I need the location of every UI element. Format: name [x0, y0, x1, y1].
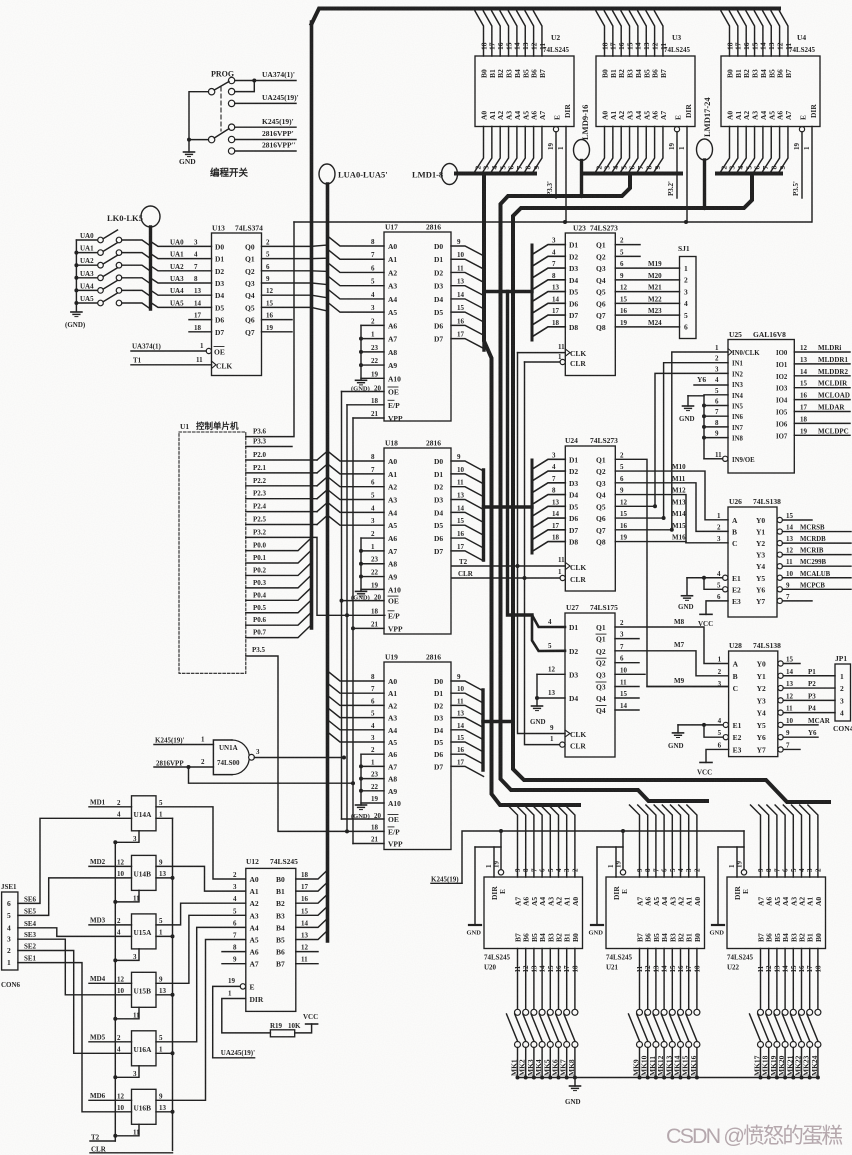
wire U26 E3 vcc — [706, 601, 728, 615]
wire U13 Q4 — [262, 294, 312, 296]
bus tie U19 lower — [483, 720, 513, 723]
wire U24 Q8 M16 — [615, 542, 728, 543]
wire U21 A5 top pin — [646, 805, 656, 877]
wire U24 D4 — [532, 495, 565, 505]
wire U19 D7 fan — [451, 766, 484, 776]
wire U23 Q5 — [615, 291, 679, 293]
wire U17 D6 fan — [451, 325, 484, 335]
wire U4 B0 pin — [721, 11, 730, 56]
wire U22 B4 bottom pin — [784, 949, 786, 1010]
EEPROM U19 2816 — [384, 662, 451, 850]
wire U20 A6 top pin — [516, 805, 526, 877]
wire U27 D1 feed — [532, 615, 565, 627]
wire U12 B1 — [296, 882, 328, 891]
wire U26 Y3 — [782, 554, 784, 556]
wire U13 Q3 — [262, 282, 312, 284]
switch MK13 — [669, 1009, 675, 1015]
bus U24 input fan trunk — [531, 460, 534, 553]
register U13 74LS374 — [212, 233, 262, 376]
wire U2 B1 pin — [483, 11, 492, 56]
wire U18 A1 entry — [328, 464, 385, 474]
wire CLR chain — [525, 362, 566, 745]
bus U18 data fan trunk — [482, 470, 485, 560]
wire U18 A6-A10 gnd tie — [360, 538, 362, 591]
wire UA1 to trunk — [122, 253, 151, 259]
wire U3 A4 pin — [628, 127, 638, 174]
wire U26 Y4 — [782, 565, 784, 567]
wire gate out trunk — [172, 818, 174, 1150]
wire SE2 — [18, 951, 132, 1054]
wire U17 D3 fan — [451, 286, 484, 296]
bus LMD9-16 route — [501, 174, 708, 801]
wire U19 A10 tie — [361, 802, 384, 804]
wire DIR common — [294, 221, 811, 223]
wire U3 B6 pin — [646, 11, 655, 56]
wire U26 E1 E2 gnd — [687, 577, 723, 579]
wire U19 A0 entry — [328, 671, 385, 681]
wire U19 A8 tie — [361, 778, 384, 780]
wire U13 Q5 — [262, 306, 312, 308]
wire U18 D0 fan — [451, 461, 484, 471]
wire PROG link dashed — [220, 87, 222, 131]
wire U12 B2 — [296, 894, 328, 903]
wire U19 D6 fan — [451, 754, 484, 764]
wire U24 Q4 M12 — [615, 495, 686, 543]
wire U23 Q6 — [615, 302, 679, 304]
wire bus jog Q5 — [312, 307, 328, 311]
wire UA0 to U13 — [151, 241, 212, 246]
switch MK15 — [686, 1009, 692, 1015]
wire U19 A7 tie — [361, 765, 384, 767]
bus address riser — [326, 184, 330, 941]
wire U20 enable drop — [475, 831, 501, 847]
wire U3 B4 pin — [629, 11, 638, 56]
wire U2 B2 pin — [492, 11, 501, 56]
wire U4 A7 pin — [778, 127, 788, 174]
wire U2 A4 pin — [507, 127, 517, 174]
wire U19 A9 tie — [361, 790, 384, 792]
wire SE3 — [18, 939, 132, 995]
ground U20 — [469, 924, 481, 926]
wire U20 B1 bottom pin — [566, 949, 568, 1010]
wire U23 D5 — [532, 292, 565, 302]
wire U26 Y7 — [782, 600, 784, 602]
wire UA374(1)' contact — [235, 80, 296, 82]
wire U20 B2 bottom pin — [558, 949, 560, 1010]
wire U22 A3 top pin — [783, 805, 793, 877]
wire U23 Q3 — [615, 267, 679, 269]
wire gate out2 row 2 — [156, 935, 173, 937]
wire U18 D4 fan — [451, 512, 484, 522]
wire U24 Q1 to M9 — [615, 459, 728, 686]
bus bar under U4 — [717, 172, 781, 176]
switch MK16 — [694, 1009, 700, 1015]
bus LMD1-8 vertical — [484, 175, 579, 805]
wire U3 B0 pin — [596, 11, 605, 56]
wire U2 B7 pin — [533, 11, 542, 56]
wire U3 A7 pin — [653, 127, 663, 174]
wire U16A control tab — [115, 1066, 139, 1078]
switch MK6 — [556, 1009, 562, 1015]
EEPROM U18 2816 — [384, 448, 451, 634]
wire U4 A3 pin — [745, 127, 755, 174]
wire U22 B2 bottom pin — [801, 949, 803, 1010]
wire U17 A6 tie — [361, 324, 384, 326]
wire U13 Q1 — [262, 258, 312, 260]
switch MK8 — [572, 1009, 578, 1015]
wire U2 B5 pin — [517, 11, 526, 56]
wire U18 D6 fan — [451, 538, 484, 548]
wire SE5 — [18, 878, 132, 916]
wire U12 B4 — [296, 918, 328, 927]
wire U23 D2 — [532, 256, 565, 266]
wire U21 B2 bottom pin — [680, 949, 682, 1010]
wire U22 B7 bottom pin — [760, 949, 762, 1010]
wire U13 Q0 — [262, 245, 312, 247]
wire U20 B7 bottom pin — [517, 949, 519, 1010]
wire U12 A7 stub — [222, 963, 246, 965]
ground U25 — [688, 395, 704, 397]
wire UA2 to U13 — [151, 266, 212, 271]
wire U21 enable drop — [597, 831, 623, 847]
wire U21 A6 top pin — [638, 805, 648, 877]
connector JP1 — [835, 664, 851, 721]
switch MK12 — [661, 1009, 667, 1015]
buffer U12 74LS245 — [246, 868, 296, 1011]
switch MK7 — [564, 1009, 570, 1015]
wire U4 B4 pin — [754, 11, 763, 56]
wire U4 A2 pin — [736, 127, 746, 174]
74LS245 U3 — [596, 56, 695, 127]
wire U20 B0 bottom pin — [574, 949, 576, 1010]
switch MK14 — [678, 1009, 684, 1015]
bus LK trunk — [149, 227, 152, 309]
wire U21 A2 top pin — [671, 805, 681, 877]
wire U22 B5 bottom pin — [776, 949, 778, 1010]
wire U17 D5 fan — [451, 312, 484, 322]
wire U27 Q4 stub — [615, 709, 639, 711]
wire U23 D6 — [532, 303, 565, 313]
wire U21 A7 top pin — [630, 805, 640, 877]
wire U20 A0 top pin — [565, 805, 575, 877]
switch MK21 — [790, 1009, 796, 1015]
wire U19 D5 fan — [451, 742, 484, 752]
wire U24 D7 — [532, 530, 565, 540]
wire UA2 to trunk — [122, 265, 151, 271]
wire U25 IO3 — [794, 387, 850, 389]
wire U15B control tab — [115, 1007, 139, 1019]
wire U4 B6 pin — [771, 11, 780, 56]
wire U23 D1 — [532, 245, 565, 255]
wire U27 Q3 stub — [615, 673, 645, 675]
wire U19 D4 fan — [451, 730, 484, 740]
wire bus jog Q1 — [312, 257, 328, 259]
wire U12 B7 — [296, 963, 318, 965]
wire U23 Q1 — [615, 244, 640, 246]
wire U22 A5 top pin — [767, 805, 777, 877]
wire U24 Q7 M15 — [615, 529, 672, 531]
wire U3 A3 pin — [620, 127, 630, 174]
wire U19 A4 entry — [328, 720, 385, 730]
wire U20 A4 top pin — [532, 805, 542, 877]
wire U22 B1 bottom pin — [809, 949, 811, 1010]
wire U22 A4 top pin — [775, 805, 785, 877]
wire U4 A1 pin — [728, 127, 738, 174]
wire U3 A2 pin — [611, 127, 621, 174]
wire U20 B5 bottom pin — [533, 949, 535, 1010]
wire U22 B6 bottom pin — [768, 949, 770, 1010]
wire U3 A1 pin — [603, 127, 613, 174]
register U24 74LS273 — [565, 446, 615, 591]
wire U22 B0 bottom pin — [817, 949, 819, 1010]
switch MK22 — [799, 1009, 805, 1015]
wire U3 B5 pin — [638, 11, 647, 56]
wire U19 A6-A10 gnd tie — [360, 754, 362, 805]
wire U19 A1 entry — [328, 683, 385, 693]
wire U13 Q2 — [262, 270, 312, 272]
analog switch U15A — [132, 914, 157, 949]
wire U17 A6-A10 gnd tie — [360, 325, 362, 380]
decoder U28 74LS138 — [729, 651, 778, 757]
wire U18 A3 entry — [328, 490, 385, 500]
wire CLK chain — [518, 353, 566, 734]
EEPROM U17 2816 — [384, 232, 451, 421]
switch MK11 — [653, 1009, 659, 1015]
switch MK1 — [515, 1009, 521, 1015]
wire 2816VPP' contact — [235, 139, 296, 141]
wire U18 D7 fan — [451, 551, 484, 561]
wire U4 B1 pin — [729, 11, 738, 56]
wire U25 IO5 — [794, 411, 850, 413]
analog switch U16A — [132, 1031, 157, 1066]
register U27 74LS175 — [565, 613, 615, 757]
switch MK18 — [766, 1009, 772, 1015]
wire U2 B6 pin — [525, 11, 534, 56]
wire U22 A6 top pin — [759, 805, 769, 877]
wire U18 D3 fan — [451, 500, 484, 510]
wire 2816VPP to VPP chain — [189, 767, 354, 783]
wire U27 Q2 M7 — [615, 651, 728, 676]
wire U24 Q2 M10 — [615, 471, 728, 520]
analog switch U15B — [132, 972, 157, 1007]
switch MK10 — [645, 1009, 651, 1015]
ground U22 — [712, 924, 724, 926]
wire UA3 to U13 — [151, 278, 212, 283]
wire U25 IN4-IN8 tie — [704, 396, 722, 459]
wire U27 Q1 stub — [615, 638, 639, 640]
wire U27 Q4 stub — [615, 697, 639, 699]
wire U19 A5 entry — [328, 732, 385, 742]
switch MK3 — [531, 1009, 537, 1015]
wire UA3 to trunk — [122, 278, 151, 284]
wire bus jog Q0 — [312, 245, 328, 246]
connector JSE1 CON6 — [2, 892, 18, 970]
wire U21 B7 bottom pin — [639, 949, 641, 1010]
wire U18 A7 tie — [361, 550, 384, 552]
wire U25 IO1 — [794, 363, 850, 365]
wire U14B control tab — [115, 890, 139, 902]
PLD U25 GAL16V8 — [728, 340, 794, 474]
wire U13 D6 stub — [189, 319, 212, 321]
wire U18 D5 fan — [451, 525, 484, 535]
wire U21 B6 bottom pin — [647, 949, 649, 1010]
wire U24 D5 — [532, 506, 565, 516]
wire UA5 to U13 — [151, 302, 212, 307]
wire U21 B4 bottom pin — [663, 949, 665, 1010]
wire U25 IO2 — [794, 375, 850, 377]
wire U13 D7 stub — [189, 331, 212, 333]
wire U25 IO4 — [794, 399, 850, 401]
bus branch U27 feed — [508, 292, 533, 616]
register U23 74LS273 — [565, 233, 615, 376]
bus U23 input fan trunk — [531, 245, 534, 340]
wire U17 A9 tie — [361, 364, 384, 366]
wire U24 Q3 M11 — [615, 483, 728, 532]
buffer U20 74LS245 — [484, 877, 583, 949]
wire U28 E1 E2 gnd — [678, 724, 723, 726]
wire U21 B1 bottom pin — [688, 949, 690, 1010]
wire U2 A7 pin — [532, 127, 542, 174]
wire U24 D6 — [532, 518, 565, 528]
wire U27 D2 feed — [532, 615, 565, 651]
wire U28 Y6 — [783, 736, 818, 738]
wire 2816VPP'' contact — [235, 150, 296, 152]
wire U28 Y7 — [783, 748, 800, 750]
switch MK5 — [547, 1009, 553, 1015]
wire U12 B6 — [296, 951, 318, 953]
connector SJ1 — [680, 257, 697, 339]
wire U24 D1 — [532, 459, 565, 469]
wire U19 A2 entry — [328, 695, 385, 705]
wire UA0 to trunk — [122, 240, 151, 246]
wire U28 Y4 — [783, 712, 835, 714]
wire gate out2 row 1 — [156, 877, 173, 879]
wire bus jog Q2 — [312, 270, 328, 273]
wire U13 Q7 stub — [262, 331, 293, 333]
wire U17 A4 entry — [328, 289, 385, 299]
buffer U22 74LS245 — [727, 877, 826, 949]
wire U2 A1 pin — [482, 127, 492, 174]
switch MK2 — [523, 1009, 529, 1015]
wire U20 A2 top pin — [549, 805, 559, 877]
switch MK17 — [758, 1009, 764, 1015]
wire bus jog Q3 — [312, 283, 328, 285]
wire U23 D8 — [532, 327, 565, 337]
wire U26 Y5 — [782, 577, 784, 579]
wire U2 A0 pin — [474, 127, 484, 174]
wire U20 B6 bottom pin — [525, 949, 527, 1010]
wire gate out to U12 A3 — [156, 915, 246, 983]
wire U21 B0 bottom pin — [696, 949, 698, 1010]
wire SE4 — [18, 928, 132, 937]
bus U19 data fan trunk — [481, 690, 484, 770]
gate UN1A 74LS00 — [213, 740, 232, 775]
wire U18 D1 fan — [451, 474, 484, 484]
wire U23 D7 — [532, 315, 565, 325]
wire U24 Q5 M13 — [615, 505, 655, 507]
wire U4 A4 pin — [753, 127, 763, 174]
bus LMD17-24 route — [513, 174, 829, 802]
wire U18 A5 entry — [328, 515, 385, 525]
wire U27 Q3 stub — [615, 686, 639, 688]
wire U23 Q4 — [615, 279, 679, 281]
analog switch U14B — [132, 855, 157, 890]
wire gate out2 row 3 — [156, 994, 173, 996]
wire U17 A10 tie — [361, 377, 384, 379]
wire U4 A5 pin — [761, 127, 771, 174]
wire U3 B7 pin — [654, 11, 663, 56]
wire U16B control tab — [115, 1124, 139, 1136]
wire U3 B1 pin — [604, 11, 613, 56]
wire U2 A3 pin — [499, 127, 509, 174]
wire U22 enable drop — [718, 831, 744, 847]
wire U17 A7 tie — [361, 338, 384, 340]
wire SE6 — [18, 818, 132, 903]
wire U25 IO6 — [794, 422, 850, 424]
wire U22 A1 top pin — [800, 805, 810, 877]
wire U12 A6 stub — [222, 951, 246, 953]
svg-text:CSDN @愤怒的蛋糕: CSDN @愤怒的蛋糕 — [666, 1124, 843, 1148]
ground U21 — [591, 924, 603, 926]
wire U3 B2 pin — [613, 11, 622, 56]
wire U26 Y0 — [782, 519, 784, 521]
wire gate out to U12 A0 — [156, 807, 246, 879]
wire U25 IO0 — [794, 351, 850, 353]
wire U22 A2 top pin — [792, 805, 802, 877]
wire U25 IO7 — [794, 434, 850, 436]
wire U2 A5 pin — [515, 127, 525, 174]
wire gate out2 row 4 — [156, 1052, 173, 1054]
wire U4 A0 pin — [720, 127, 730, 174]
wire gate out to U12 A2 — [156, 903, 246, 925]
wire U28 Y5 — [783, 724, 818, 726]
wire U28 E3 vcc — [706, 749, 729, 762]
wire U25 IN1 — [664, 363, 728, 518]
wire PROG common rail — [189, 92, 208, 152]
wire U18 A9 tie — [361, 576, 384, 578]
ground MK rail — [574, 1078, 576, 1087]
wire U17 D2 fan — [451, 272, 484, 282]
wire U18 A0 entry — [328, 451, 385, 461]
buffer U21 74LS245 — [606, 877, 705, 949]
wire U21 B3 bottom pin — [671, 949, 673, 1010]
analog switch U16B — [132, 1089, 157, 1124]
wire U24 D3 — [532, 483, 565, 493]
wire U28 Y1 — [783, 675, 835, 677]
wire U20 B4 bottom pin — [541, 949, 543, 1010]
wire U26 Y6 — [782, 588, 784, 590]
wire U20 A1 top pin — [557, 805, 567, 877]
bus U17 data fan trunk — [482, 255, 485, 350]
switch MK19 — [774, 1009, 780, 1015]
wire R19 to VCC — [295, 1024, 312, 1033]
decoder U26 74LS138 — [728, 507, 777, 617]
74LS245 U2 — [475, 56, 574, 127]
wire U12 B5 — [296, 931, 328, 940]
wire gate out to U12 A4 — [156, 927, 246, 1041]
wire K245(19)' contact — [235, 126, 296, 128]
wire U4 A6 pin — [770, 127, 780, 174]
wire U15A control tab — [115, 949, 139, 961]
wire M9 to U28 C — [647, 686, 728, 688]
scan noise — [0, 0, 1, 1]
wire U19 A6 tie — [361, 753, 384, 755]
wire U17 A0 entry — [328, 236, 385, 246]
wire U13 Q6 stub — [262, 319, 293, 321]
wire U28 Y3 — [783, 699, 835, 701]
wire gate out to U12 A5 — [156, 940, 246, 1101]
wire U17 A5 entry — [328, 302, 385, 312]
